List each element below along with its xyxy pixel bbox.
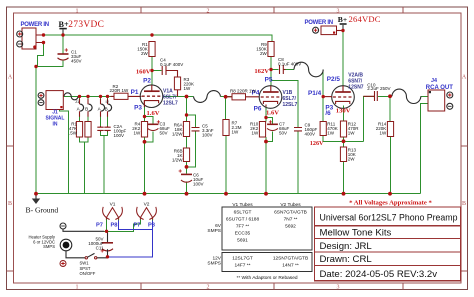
svg-text:Mellow Tone Kits: Mellow Tone Kits xyxy=(320,227,392,238)
svg-text:12SN7: 12SN7 xyxy=(348,84,364,90)
svg-text:SMPS: SMPS xyxy=(207,228,221,234)
svg-text:1W: 1W xyxy=(184,86,192,91)
svg-text:273VDC: 273VDC xyxy=(68,20,104,30)
svg-text:B+: B+ xyxy=(338,15,347,24)
svg-text:1W: 1W xyxy=(134,131,142,136)
svg-text:264VDC: 264VDC xyxy=(349,14,381,24)
svg-text:SW1: SW1 xyxy=(80,261,90,266)
svg-text:1W: 1W xyxy=(252,131,260,136)
svg-text:POWER IN: POWER IN xyxy=(21,22,49,28)
svg-text:0.1uF 400V: 0.1uF 400V xyxy=(278,62,301,67)
svg-text:P1: P1 xyxy=(131,89,139,96)
svg-text:2: 2 xyxy=(207,285,210,291)
svg-text:R8 220R 1W: R8 220R 1W xyxy=(230,88,257,93)
svg-text:0.1uF 400V: 0.1uF 400V xyxy=(160,62,183,67)
svg-text:160V: 160V xyxy=(136,69,151,76)
svg-text:V2 Tubes: V2 Tubes xyxy=(280,202,301,208)
svg-text:220R 1W: 220R 1W xyxy=(110,88,130,93)
svg-text:100V: 100V xyxy=(202,133,213,138)
svg-text:IN: IN xyxy=(53,121,58,127)
svg-text:100V: 100V xyxy=(114,133,125,138)
svg-text:** With Adaptors or Rebased: ** With Adaptors or Rebased xyxy=(236,275,297,281)
svg-text:14F7 **: 14F7 ** xyxy=(235,263,251,269)
svg-text:450V: 450V xyxy=(71,59,82,64)
svg-text:Universal 6or12SL7 Phono Pream: Universal 6or12SL7 Phono Preamp xyxy=(320,212,458,223)
svg-text:B: B xyxy=(85,107,88,112)
svg-text:SMPS: SMPS xyxy=(43,244,55,249)
svg-text:B: B xyxy=(105,107,108,112)
svg-text:12SN7GTA/GTB: 12SN7GTA/GTB xyxy=(273,255,308,261)
svg-text:J4: J4 xyxy=(431,78,437,84)
svg-text:1: 1 xyxy=(76,9,79,15)
svg-text:P8: P8 xyxy=(148,223,155,229)
svg-text:1/2W: 1/2W xyxy=(172,132,183,137)
svg-text:1.6V: 1.6V xyxy=(147,110,160,117)
svg-text:1.6V: 1.6V xyxy=(266,110,279,117)
svg-text:1W: 1W xyxy=(232,130,240,135)
svg-text:2: 2 xyxy=(207,9,210,15)
svg-text:.5W: .5W xyxy=(69,131,78,136)
svg-text:A: A xyxy=(8,75,13,81)
svg-text:7N7 **: 7N7 ** xyxy=(284,216,298,222)
svg-text:1W: 1W xyxy=(348,131,356,136)
svg-text:V1 Tubes: V1 Tubes xyxy=(232,202,253,208)
svg-text:P8: P8 xyxy=(111,223,118,229)
svg-text:B: B xyxy=(462,201,466,207)
svg-text:A: A xyxy=(462,75,467,81)
svg-text:6SN7GTA/GTB: 6SN7GTA/GTB xyxy=(274,209,307,215)
svg-text:P2/5: P2/5 xyxy=(327,76,341,83)
svg-text:6SU7GT / 6188: 6SU7GT / 6188 xyxy=(226,216,260,222)
svg-text:SMPS: SMPS xyxy=(207,261,221,267)
svg-text:P6: P6 xyxy=(254,106,262,113)
svg-text:5691: 5691 xyxy=(237,237,248,243)
svg-text:ECC35: ECC35 xyxy=(235,230,251,236)
svg-text:12SL7: 12SL7 xyxy=(163,101,178,107)
svg-text:3: 3 xyxy=(337,9,340,15)
svg-text:V1: V1 xyxy=(110,201,116,207)
svg-text:P7: P7 xyxy=(96,223,103,229)
svg-text:126V: 126V xyxy=(310,140,324,147)
svg-text:162V: 162V xyxy=(254,68,269,75)
svg-text:Date: 2024-05-05 REV:3.2v: Date: 2024-05-05 REV:3.2v xyxy=(320,269,438,280)
svg-text:12SL7: 12SL7 xyxy=(283,102,298,108)
svg-text:6SL7GT: 6SL7GT xyxy=(234,209,252,215)
svg-text:130V: 130V xyxy=(336,108,351,115)
svg-text:7F7 **: 7F7 ** xyxy=(236,223,249,229)
svg-text:3: 3 xyxy=(337,285,340,291)
svg-text:2W: 2W xyxy=(348,157,356,162)
svg-text:B: B xyxy=(8,201,12,207)
svg-text:* All Voltages Approximate *: * All Voltages Approximate * xyxy=(349,199,432,206)
svg-text:/6: /6 xyxy=(325,110,331,117)
svg-text:1: 1 xyxy=(76,285,79,291)
svg-text:V2: V2 xyxy=(144,201,150,207)
svg-text:P7: P7 xyxy=(134,223,141,229)
svg-text:1W: 1W xyxy=(380,131,388,136)
svg-text:RCA OUT: RCA OUT xyxy=(426,85,453,91)
svg-text:P1/4: P1/4 xyxy=(308,90,322,97)
svg-text:2.2uF 250V: 2.2uF 250V xyxy=(367,86,390,91)
svg-text:2W: 2W xyxy=(141,51,149,56)
svg-text:400V: 400V xyxy=(305,132,316,137)
svg-text:100V: 100V xyxy=(193,182,204,187)
svg-text:POWER IN: POWER IN xyxy=(305,20,333,26)
svg-text:P3: P3 xyxy=(134,105,142,112)
svg-text:ON/OFF: ON/OFF xyxy=(80,271,96,276)
svg-text:12SL7GT: 12SL7GT xyxy=(232,255,253,261)
svg-text:Design: JRL: Design: JRL xyxy=(320,241,373,252)
svg-text:14N7 **: 14N7 ** xyxy=(282,263,299,269)
svg-text:2W: 2W xyxy=(260,51,268,56)
svg-text:SPST: SPST xyxy=(80,266,91,271)
svg-text:5692: 5692 xyxy=(285,223,296,229)
svg-text:Drawn: CRL: Drawn: CRL xyxy=(320,254,373,265)
svg-text:1W: 1W xyxy=(327,131,335,136)
svg-text:C11: C11 xyxy=(96,246,104,251)
svg-text:50V: 50V xyxy=(160,131,168,136)
svg-text:50V: 50V xyxy=(279,131,287,136)
svg-text:1/2W: 1/2W xyxy=(172,158,183,163)
svg-text:P2: P2 xyxy=(143,77,151,84)
svg-text:P5: P5 xyxy=(265,76,273,83)
svg-text:B- Ground: B- Ground xyxy=(26,205,59,214)
